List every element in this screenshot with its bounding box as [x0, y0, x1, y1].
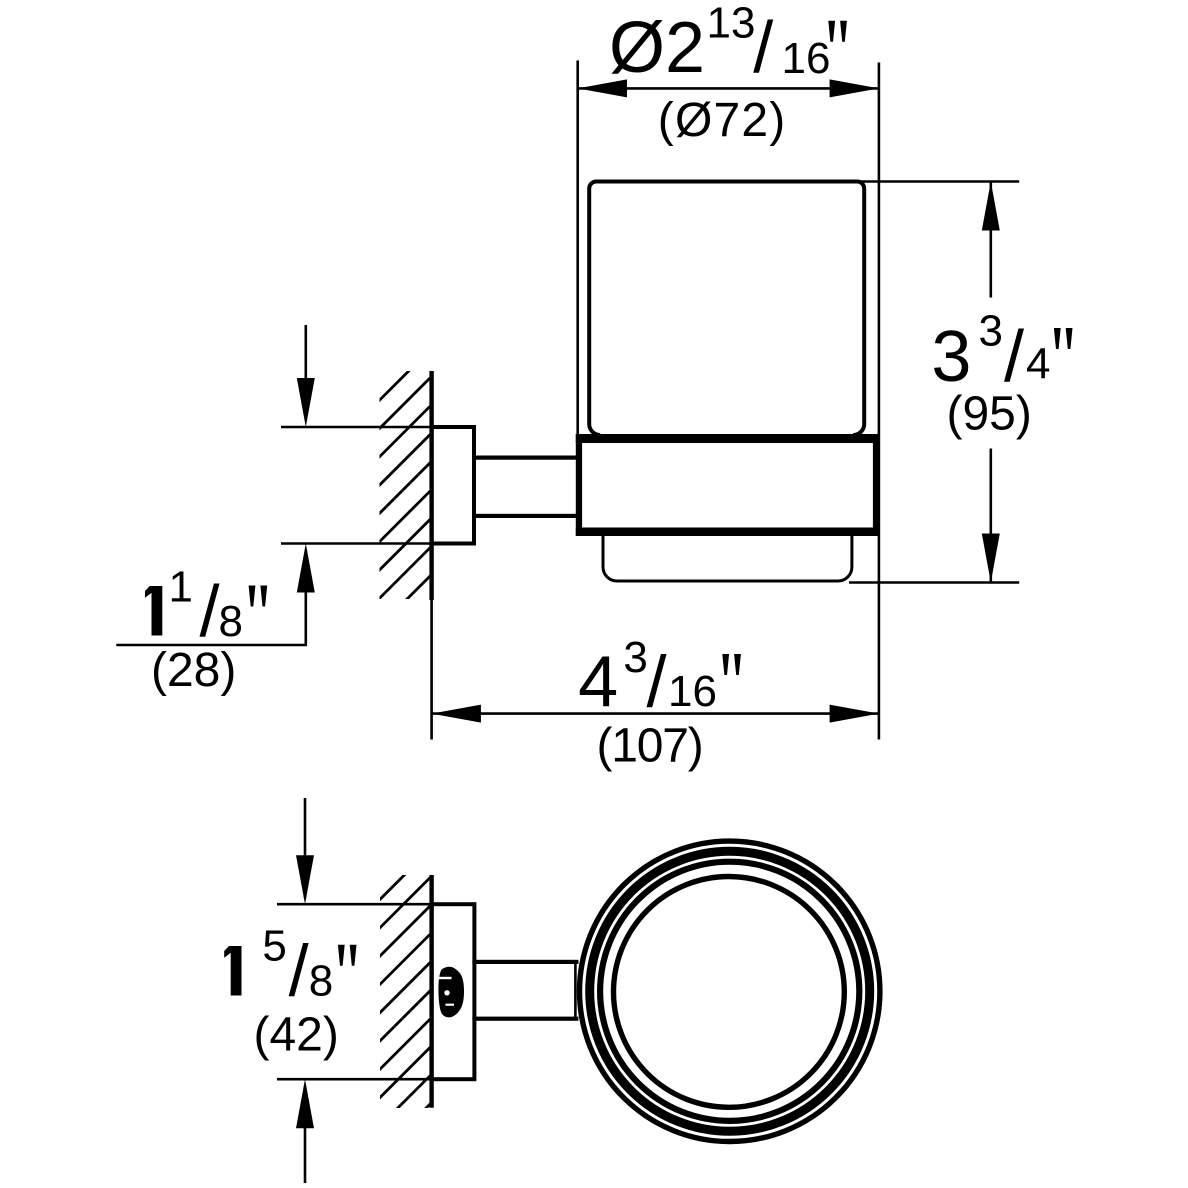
dimension label 1 1/8": [145, 563, 267, 652]
svg-text:/: /: [200, 572, 220, 652]
28-dim upper arrow (pointing down): [297, 325, 315, 427]
95-dim bottom reference line: [849, 581, 1019, 584]
dimension label Ø2 13/16": [609, 0, 847, 88]
42-dim lower arrow (pointing up): [296, 1079, 314, 1183]
svg-text:16: 16: [782, 34, 831, 83]
42-dim upper reference line: [277, 903, 430, 906]
svg-text:(107): (107): [597, 720, 703, 773]
svg-text:(28): (28): [151, 644, 236, 697]
svg-text:/: /: [1004, 317, 1024, 397]
28-dim lower reference line: [281, 542, 430, 545]
glass tumbler outline (side view): [589, 182, 864, 436]
wall line (plan view): [429, 875, 433, 1108]
107-dim line with arrowheads: [432, 705, 879, 723]
svg-text:/: /: [647, 643, 667, 723]
glass lip below holder: [603, 534, 852, 581]
svg-text:3: 3: [979, 307, 1003, 356]
svg-text:4: 4: [578, 643, 618, 723]
svg-text:(Ø72): (Ø72): [658, 94, 787, 147]
holder ring bottom edge: [576, 528, 879, 537]
95-dim top reference line: [860, 180, 1019, 183]
glass outer circle: [590, 851, 870, 1131]
dimension label 1 5/8": [224, 922, 356, 1012]
svg-text:8: 8: [309, 957, 333, 1006]
42-dim upper arrow (pointing down): [296, 798, 314, 904]
svg-text:13: 13: [707, 0, 756, 48]
wall hatching (plan view): [376, 846, 433, 1158]
extension line left (holder left edge): [576, 61, 579, 437]
svg-text:3: 3: [623, 633, 647, 682]
svg-text:3: 3: [931, 317, 971, 397]
wall extension line down to 107 dim: [430, 600, 433, 740]
holder ring outer circle: [580, 841, 880, 1141]
glass inner rim circle: [614, 877, 845, 1108]
holder ring right edge: [873, 434, 879, 536]
mounting arm (side view): [472, 456, 577, 460]
arm end cap line: [574, 960, 577, 1021]
28-dim lower arrow (pointing up) with leader: [116, 544, 314, 646]
42-dim lower reference line: [277, 1078, 430, 1081]
wall plate bracket (plan view): [432, 904, 475, 1079]
95-dim vertical line with arrowheads (broken at label): [982, 182, 1000, 583]
28-dim upper reference line: [281, 426, 430, 429]
svg-text:/: /: [753, 8, 773, 88]
svg-text:4: 4: [1026, 340, 1050, 389]
svg-text:Ø2: Ø2: [609, 8, 705, 88]
svg-text:8: 8: [219, 597, 243, 646]
svg-text:(95): (95): [947, 388, 1032, 441]
holder ring left edge: [576, 434, 582, 536]
GROHE logo stamp on bracket: [438, 967, 464, 1018]
wall plate bracket (side view): [432, 427, 474, 544]
wall hatching (side view): [376, 347, 433, 659]
svg-text:1: 1: [169, 563, 193, 612]
svg-text:/: /: [289, 931, 309, 1011]
dimension line Ø72 with arrowheads: [578, 79, 879, 97]
svg-text:16: 16: [668, 667, 717, 716]
dimension label 3 3/4": [931, 307, 1072, 398]
mounting arm (plan view): [472, 960, 578, 964]
holder ring (side view) top edge: [576, 434, 879, 443]
svg-text:(42): (42): [254, 1009, 339, 1062]
svg-text:5: 5: [262, 922, 286, 971]
extension line right (holder right edge, shared with 107 dim): [878, 63, 881, 740]
wall line (side view): [429, 371, 433, 600]
glass lip circle: [600, 862, 859, 1121]
dimension label 4 3/16": [578, 633, 741, 723]
